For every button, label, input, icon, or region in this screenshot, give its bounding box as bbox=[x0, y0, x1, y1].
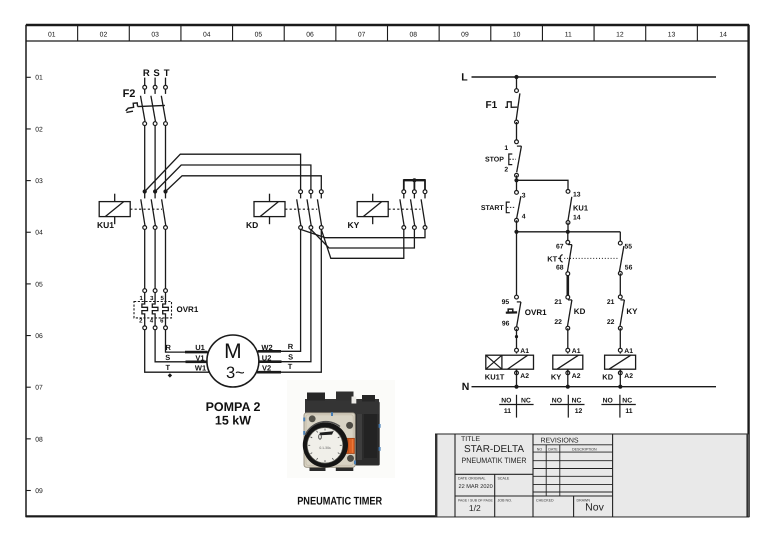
wire bus corner to KT NO branch bbox=[619, 232, 621, 242]
svg-text:KY: KY bbox=[348, 220, 360, 230]
svg-text:U1: U1 bbox=[195, 343, 205, 352]
svg-text:A2: A2 bbox=[624, 373, 633, 380]
KD pole 3 bbox=[317, 190, 323, 230]
svg-text:F1: F1 bbox=[486, 100, 498, 111]
svg-text:PNEUMATIK TIMER: PNEUMATIK TIMER bbox=[462, 456, 527, 465]
terminal KD A1 bbox=[618, 348, 622, 352]
svg-text:4: 4 bbox=[522, 213, 526, 220]
node L line bbox=[461, 72, 716, 84]
wire T to OVR1 bbox=[165, 229, 167, 288]
svg-text:11: 11 bbox=[504, 408, 511, 415]
svg-text:KU1: KU1 bbox=[97, 220, 114, 230]
svg-text:07: 07 bbox=[35, 385, 43, 392]
svg-text:14: 14 bbox=[719, 32, 727, 39]
overload relay OVR1 bbox=[134, 289, 199, 330]
phase labels R S T bbox=[143, 68, 170, 79]
svg-text:15 kW: 15 kW bbox=[215, 414, 251, 428]
svg-text:NC: NC bbox=[622, 397, 632, 404]
pushbutton STOP bbox=[485, 146, 521, 172]
svg-text:68: 68 bbox=[556, 264, 564, 271]
wire R to motor W1 bbox=[145, 330, 210, 373]
svg-text:KD: KD bbox=[574, 307, 586, 316]
wire R to OVR1 bbox=[144, 229, 146, 288]
svg-text:TITLE: TITLE bbox=[461, 436, 480, 443]
svg-text:R: R bbox=[288, 342, 294, 351]
dashed link KU1 bbox=[130, 208, 162, 210]
wire OVR to coil KU1T bbox=[516, 329, 518, 354]
svg-text:1: 1 bbox=[504, 145, 508, 152]
wire KU1 aux to bus bbox=[567, 223, 569, 232]
wire KT to KD aux bold bbox=[566, 276, 569, 296]
feeder wire R to KD bbox=[145, 154, 301, 192]
wire KT56 to KY aux bbox=[619, 273, 621, 297]
wire S to motor V1 bbox=[155, 330, 207, 362]
svg-text:DESCRIPTION: DESCRIPTION bbox=[572, 447, 597, 451]
svg-text:A1: A1 bbox=[624, 348, 633, 355]
terminal KU1 13 bbox=[566, 190, 570, 194]
terminal KY22 bbox=[618, 326, 622, 330]
dashed link KY bbox=[388, 208, 420, 210]
KU1 pole S bbox=[151, 193, 157, 229]
svg-text:A1: A1 bbox=[572, 348, 581, 355]
svg-text:08: 08 bbox=[410, 32, 418, 39]
contactor KY coil bbox=[348, 194, 389, 230]
svg-text:03: 03 bbox=[35, 178, 43, 185]
terminal R top bbox=[143, 85, 147, 89]
svg-text:F2: F2 bbox=[123, 88, 136, 100]
svg-text:KD: KD bbox=[602, 372, 613, 381]
star point bracket bbox=[404, 178, 425, 190]
svg-text:02: 02 bbox=[100, 32, 108, 39]
svg-text:POMPA 2: POMPA 2 bbox=[206, 400, 261, 414]
left row ticks 01-09 bbox=[26, 75, 43, 495]
svg-text:KD: KD bbox=[246, 220, 258, 230]
terminal F1 top bbox=[515, 89, 519, 93]
svg-text:STOP: STOP bbox=[485, 156, 504, 163]
wire to KD coil bbox=[619, 328, 621, 353]
wire KD coil to N bbox=[619, 369, 621, 387]
svg-text:T: T bbox=[288, 362, 293, 371]
terminal bar V1 bbox=[186, 360, 208, 363]
terminal START 3 bbox=[515, 191, 519, 195]
contact KY aux NC 21-22 bbox=[620, 300, 638, 326]
svg-text:06: 06 bbox=[35, 333, 43, 340]
svg-text:KU1T: KU1T bbox=[485, 372, 505, 381]
terminal R below F2 bbox=[143, 122, 147, 126]
KD pole 1 bbox=[297, 190, 303, 230]
wire KD2 to motor U2 bbox=[259, 229, 311, 361]
contactor KD coil bbox=[246, 194, 285, 230]
coil KU1T timer bbox=[485, 355, 534, 381]
svg-text:09: 09 bbox=[35, 488, 43, 495]
svg-text:11: 11 bbox=[625, 408, 632, 415]
junction below STOP bbox=[514, 178, 518, 182]
wire to KY coil bbox=[567, 328, 569, 353]
svg-text:S: S bbox=[153, 68, 159, 79]
link wire KD2-KY2 bbox=[311, 229, 415, 248]
svg-text:V1: V1 bbox=[195, 353, 204, 362]
wire KD1 to motor W2 bbox=[257, 229, 300, 351]
link wire KD3-KY1 bbox=[321, 229, 404, 258]
svg-text:96: 96 bbox=[502, 320, 510, 327]
breaker F1 bbox=[486, 93, 520, 120]
svg-text:S: S bbox=[165, 353, 170, 362]
svg-text:NC: NC bbox=[572, 397, 582, 404]
svg-text:PAGE / SUB OF PAGE: PAGE / SUB OF PAGE bbox=[458, 498, 493, 502]
terminal F1 bottom bbox=[515, 120, 519, 124]
svg-text:A2: A2 bbox=[520, 373, 529, 380]
svg-text:01: 01 bbox=[48, 32, 56, 39]
terminal KT 67 bbox=[566, 240, 570, 244]
svg-text:08: 08 bbox=[35, 436, 43, 443]
KU1 pole T bbox=[162, 193, 168, 229]
wire phase S top bbox=[154, 78, 156, 94]
wire bus to OVR branch bbox=[516, 232, 518, 295]
svg-text:A1: A1 bbox=[520, 348, 529, 355]
terminal KT 55 bbox=[618, 241, 622, 245]
terminal KU1 14 bbox=[566, 221, 570, 225]
KY pole 3 bbox=[421, 190, 427, 230]
terminal KD21 bbox=[566, 295, 570, 299]
wire T to motor U1 bbox=[166, 330, 209, 352]
wire F1 to STOP bbox=[516, 122, 518, 144]
svg-text:NO: NO bbox=[501, 397, 511, 404]
wire phase T top bbox=[165, 78, 167, 94]
svg-text:T: T bbox=[166, 363, 171, 372]
svg-text:KY: KY bbox=[626, 307, 638, 316]
terminal KY A1 bbox=[566, 348, 570, 352]
wire KD3 to motor V2 bbox=[256, 229, 321, 372]
junction S bbox=[153, 189, 157, 193]
svg-text:07: 07 bbox=[358, 32, 366, 39]
wire branch to KU1 aux bbox=[517, 180, 569, 190]
contact table KU1T NO NC bbox=[499, 395, 533, 418]
junction R bbox=[143, 189, 147, 193]
wire phase R top bbox=[144, 78, 146, 94]
wire START to bus bbox=[516, 220, 518, 232]
terminal S top bbox=[153, 85, 157, 89]
svg-text:OVR1: OVR1 bbox=[177, 305, 199, 314]
contact table KD NO NC bbox=[601, 395, 635, 418]
coil KD control bbox=[602, 355, 635, 381]
terminal KY A2 bbox=[566, 371, 570, 375]
svg-text:Nov: Nov bbox=[585, 501, 604, 513]
svg-text:SCALE: SCALE bbox=[498, 477, 510, 481]
contact table KY NO NC bbox=[550, 395, 585, 418]
svg-text:A2: A2 bbox=[572, 373, 581, 380]
control bus wire bbox=[514, 230, 620, 234]
wire STOP to node bbox=[516, 175, 518, 192]
node diamond W1 bbox=[168, 373, 172, 377]
svg-text:05: 05 bbox=[35, 281, 43, 288]
svg-text:M: M bbox=[224, 340, 242, 363]
top ruler columns 01-14 bbox=[48, 26, 727, 42]
svg-text:N: N bbox=[462, 381, 470, 393]
svg-text:22 MAR 2020: 22 MAR 2020 bbox=[459, 484, 493, 490]
terminal KT 56 bbox=[618, 272, 622, 276]
svg-text:START: START bbox=[481, 205, 505, 212]
svg-text:01: 01 bbox=[35, 75, 43, 82]
svg-text:21: 21 bbox=[554, 299, 562, 306]
terminal STOP 1 bbox=[515, 140, 519, 144]
svg-text:13: 13 bbox=[668, 32, 676, 39]
terminal T below F2 bbox=[164, 122, 168, 126]
wire phase T middle bbox=[165, 121, 167, 191]
svg-text:3~: 3~ bbox=[226, 364, 245, 382]
terminal KY21 bbox=[618, 295, 622, 299]
revisions header bbox=[537, 438, 597, 452]
feeder wire T to KD bbox=[166, 176, 322, 192]
KU1 pole R bbox=[141, 193, 147, 229]
svg-text:1/2: 1/2 bbox=[469, 503, 481, 513]
svg-text:R: R bbox=[165, 343, 171, 352]
svg-text:T: T bbox=[164, 68, 170, 79]
wire phase R middle bbox=[144, 121, 146, 191]
svg-text:OVR1: OVR1 bbox=[525, 308, 547, 317]
svg-text:67: 67 bbox=[556, 243, 564, 250]
svg-text:S: S bbox=[288, 353, 293, 362]
svg-text:22: 22 bbox=[554, 319, 562, 326]
contact KT timed NC 67-68 bbox=[547, 245, 617, 272]
svg-text:02: 02 bbox=[35, 126, 43, 133]
svg-text:06: 06 bbox=[306, 32, 314, 39]
svg-text:3: 3 bbox=[522, 192, 526, 199]
terminal KD A2 bbox=[618, 371, 622, 375]
junction small bbox=[515, 335, 518, 338]
terminal bar V2 bbox=[257, 371, 281, 374]
svg-text:0.1-30s: 0.1-30s bbox=[319, 446, 331, 450]
svg-text:NC: NC bbox=[521, 397, 531, 404]
svg-text:13: 13 bbox=[573, 192, 581, 199]
coil KY control bbox=[551, 355, 583, 381]
svg-text:KU1: KU1 bbox=[573, 203, 588, 212]
svg-text:56: 56 bbox=[625, 264, 633, 271]
page cell bbox=[458, 498, 605, 513]
svg-text:JOB NO.: JOB NO. bbox=[498, 498, 512, 502]
terminal bar U1 bbox=[185, 351, 208, 354]
wire bus to KT branch bbox=[567, 232, 569, 241]
contact KU1 aux 13-14 bbox=[568, 197, 588, 221]
svg-text:2: 2 bbox=[504, 166, 508, 173]
svg-text:DATE ORIGINAL: DATE ORIGINAL bbox=[458, 477, 486, 481]
svg-text:05: 05 bbox=[255, 32, 263, 39]
terminal START 4 bbox=[515, 218, 519, 222]
svg-text:03: 03 bbox=[151, 32, 159, 39]
svg-text:NO: NO bbox=[537, 447, 543, 451]
terminal T top bbox=[164, 85, 168, 89]
svg-text:NO: NO bbox=[552, 397, 562, 404]
link wire KD1-KY3 bbox=[301, 229, 425, 237]
svg-text:10: 10 bbox=[513, 32, 521, 39]
svg-text:DATE: DATE bbox=[548, 447, 558, 451]
svg-text:CHECKED: CHECKED bbox=[536, 498, 554, 502]
node N line bbox=[462, 381, 716, 393]
title block bbox=[435, 434, 749, 517]
terminal OVR 95 bbox=[515, 295, 519, 299]
terminal KU1T A1 bbox=[515, 348, 519, 352]
svg-text:KY: KY bbox=[551, 372, 561, 381]
date cell bbox=[458, 477, 510, 491]
svg-text:12: 12 bbox=[616, 32, 624, 39]
terminal bar W2 bbox=[258, 350, 281, 353]
svg-text:09: 09 bbox=[461, 32, 469, 39]
terminal KT 68 bbox=[566, 272, 570, 276]
KY pole 2 bbox=[411, 190, 417, 230]
svg-text:KT: KT bbox=[547, 254, 557, 263]
feeder wire S to KD bbox=[155, 165, 311, 192]
terminal bar U2 bbox=[259, 360, 282, 363]
contact KT timed NO 55-56 bbox=[619, 246, 624, 272]
svg-text:L: L bbox=[461, 72, 468, 84]
svg-text:11: 11 bbox=[565, 32, 572, 39]
svg-text:95: 95 bbox=[502, 299, 510, 306]
terminal OVR 96 bbox=[515, 327, 519, 331]
motor M1 3-phase bbox=[207, 335, 259, 387]
junction T bbox=[163, 189, 167, 193]
svg-text:W1: W1 bbox=[195, 363, 206, 372]
wire KU1T to N bbox=[516, 369, 518, 387]
svg-text:12: 12 bbox=[575, 408, 583, 415]
svg-text:R: R bbox=[143, 68, 150, 79]
svg-text:PNEUMATIC TIMER: PNEUMATIC TIMER bbox=[297, 495, 382, 507]
wire S to OVR1 bbox=[154, 229, 156, 288]
title text bbox=[461, 436, 527, 465]
pushbutton START bbox=[481, 196, 521, 219]
KD pole 2 bbox=[307, 190, 313, 230]
svg-text:STAR-DELTA: STAR-DELTA bbox=[464, 444, 524, 455]
wire L to F1 bbox=[516, 77, 518, 92]
pneumatic timer photo bbox=[287, 380, 395, 478]
contactor KU1 coil bbox=[97, 194, 130, 230]
wire phase S middle bbox=[154, 121, 156, 191]
terminal STOP 2 bbox=[515, 173, 519, 177]
dashed link KD bbox=[285, 208, 317, 210]
terminal KU1T A2 bbox=[515, 371, 519, 375]
svg-text:04: 04 bbox=[35, 230, 43, 237]
contact OVR1 NC bbox=[506, 302, 547, 327]
svg-text:14: 14 bbox=[573, 215, 581, 222]
terminal KD22 bbox=[566, 326, 570, 330]
contact KD aux NC 21-22 bbox=[568, 300, 586, 326]
KY pole 1 bbox=[400, 190, 406, 230]
svg-text:NO: NO bbox=[603, 397, 613, 404]
svg-text:22: 22 bbox=[607, 319, 615, 326]
svg-text:21: 21 bbox=[607, 299, 615, 306]
circuit breaker F2 bbox=[123, 88, 166, 121]
svg-text:04: 04 bbox=[203, 32, 211, 39]
svg-text:55: 55 bbox=[625, 243, 633, 250]
wire KY coil to N bbox=[567, 369, 569, 387]
terminal S below F2 bbox=[153, 122, 157, 126]
svg-text:REVISIONS: REVISIONS bbox=[540, 438, 578, 445]
